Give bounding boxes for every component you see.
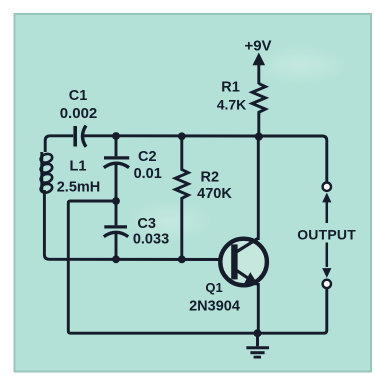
svg-text:470K: 470K xyxy=(197,186,232,202)
wire output arrow down xyxy=(322,243,331,278)
resistor R2 xyxy=(175,137,232,259)
junction node C3/base xyxy=(112,255,120,263)
junction node C2/C3 xyxy=(112,197,120,205)
terminal OUTPUT lower xyxy=(323,280,331,288)
svg-text:+9V: +9V xyxy=(244,38,271,55)
capacitor C3 xyxy=(104,201,169,259)
wire lower terminal to ground rail xyxy=(258,288,327,333)
svg-text:0.033: 0.033 xyxy=(133,232,169,248)
junction node emitter/ground xyxy=(254,329,262,337)
svg-text:C2: C2 xyxy=(138,149,157,165)
node +9V xyxy=(244,38,271,55)
svg-text:4.7K: 4.7K xyxy=(217,97,247,113)
svg-text:2N3904: 2N3904 xyxy=(189,298,240,314)
ground xyxy=(246,333,269,357)
resistor R1 xyxy=(217,80,266,115)
inductor L1 xyxy=(39,152,100,195)
svg-text:Q1: Q1 xyxy=(205,280,222,295)
svg-text:C3: C3 xyxy=(137,216,156,232)
wire collector xyxy=(257,137,260,240)
svg-text:0.002: 0.002 xyxy=(60,105,98,122)
capacitor C2 xyxy=(104,137,162,201)
terminal OUTPUT upper xyxy=(323,183,331,191)
wire emitter xyxy=(257,283,260,333)
svg-text:L1: L1 xyxy=(70,159,87,175)
junction node R2/rail xyxy=(178,132,186,140)
wire top-left corner to C1 xyxy=(45,136,73,152)
svg-text:R2: R2 xyxy=(201,170,220,186)
wire R1 to rail node xyxy=(257,114,260,137)
junction node R2/base xyxy=(178,256,186,264)
wire C2-C3 node to ground rail xyxy=(68,201,257,333)
transistor Q1 xyxy=(189,238,267,314)
wire top rail xyxy=(116,136,327,182)
svg-text:R1: R1 xyxy=(221,80,240,96)
junction node R1/collector xyxy=(255,133,263,141)
svg-text:2.5mH: 2.5mH xyxy=(57,179,101,195)
wire supply arrow xyxy=(253,53,266,85)
svg-text:C1: C1 xyxy=(69,88,88,104)
wire output arrow up xyxy=(322,193,331,223)
wire L1 bottom to base line xyxy=(44,190,231,260)
svg-text:0.01: 0.01 xyxy=(134,166,162,182)
svg-text:OUTPUT: OUTPUT xyxy=(297,226,356,242)
capacitor C1 xyxy=(60,88,116,147)
junction node C1/C2 xyxy=(112,132,120,140)
